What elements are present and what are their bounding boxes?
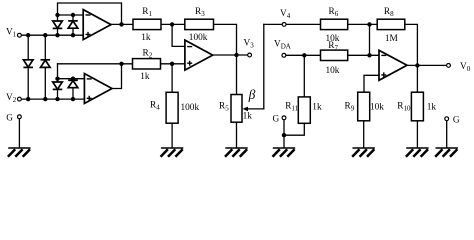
- wire node to R5 top: [236, 55, 238, 95]
- svg-text:R5: R5: [219, 101, 229, 112]
- wire diode D6 branch: [72, 79, 74, 99]
- diode D2: [68, 21, 78, 28]
- wire V4 line left of terminal: [264, 23, 282, 25]
- wire diode D4 branch: [44, 35, 46, 99]
- wire A1 feedback top: [58, 3, 122, 24]
- U2 minus marker: [87, 78, 92, 80]
- op-amp U3: [185, 40, 213, 70]
- svg-text:1M: 1M: [385, 34, 398, 44]
- wire R5 bottom to ground: [236, 122, 238, 147]
- svg-text:R6: R6: [329, 7, 339, 18]
- wire G left terminal stem: [18, 119, 20, 147]
- wire V4 terminal to R6: [286, 23, 320, 25]
- junction D6 on V2 line: [71, 97, 75, 101]
- resistor R8: [377, 19, 405, 29]
- svg-text:V0: V0: [460, 62, 471, 73]
- svg-text:10k: 10k: [370, 103, 384, 113]
- ground 2 (R4): [161, 148, 184, 157]
- junction D4 on V2 line: [43, 97, 47, 101]
- svg-text:R3: R3: [195, 7, 205, 18]
- wire VDA node down to R11: [303, 55, 305, 97]
- terminal V0: [447, 64, 451, 68]
- resistor R2: [133, 59, 161, 69]
- junction U4 output node: [415, 63, 419, 67]
- U3 minus marker: [187, 46, 192, 48]
- diode D3: [23, 60, 33, 68]
- svg-text:1k: 1k: [141, 33, 151, 43]
- svg-text:R9: R9: [345, 101, 355, 112]
- wire VDA terminal to R7: [286, 54, 321, 56]
- wire A4 noninverting input: [364, 75, 379, 92]
- svg-text:β: β: [248, 87, 256, 102]
- wire A2 feedback row / R2 row: [58, 63, 134, 65]
- svg-text:R4: R4: [150, 100, 160, 111]
- svg-text:G: G: [273, 114, 280, 124]
- junction R1-R3 node: [170, 22, 174, 26]
- op-amp U4: [379, 50, 407, 80]
- U4 minus marker: [381, 54, 386, 56]
- diode D4: [41, 60, 51, 68]
- resistor R5: [231, 95, 242, 123]
- U4 plus marker: [381, 72, 386, 77]
- resistor R9: [358, 92, 370, 121]
- diode D1: [53, 21, 63, 28]
- junction D1 top rail: [55, 13, 59, 17]
- wire diode D1 branch: [57, 15, 59, 35]
- wire R11 bottom to G node: [284, 123, 304, 135]
- wire A2 output up: [112, 64, 122, 89]
- terminal G left: [18, 115, 22, 119]
- ground 4 (G mid): [273, 148, 296, 157]
- wire diode D5 branch: [57, 79, 59, 99]
- svg-text:R2: R2: [143, 48, 153, 59]
- wire diode D3 branch: [27, 35, 29, 99]
- ground 5 (R9): [352, 148, 375, 157]
- wire R1 to R3: [161, 23, 185, 25]
- junction R6-R8 node: [367, 22, 371, 26]
- svg-text:1k: 1k: [312, 103, 322, 113]
- svg-text:10k: 10k: [326, 66, 340, 76]
- junction G-R11 ground node: [282, 133, 286, 137]
- svg-text:1k: 1k: [243, 112, 253, 122]
- ground 7 (G right): [435, 148, 458, 157]
- terminal V2: [18, 97, 22, 101]
- junction D1 on V1 line: [55, 33, 59, 37]
- wire junction to A3 inverting input: [172, 24, 185, 46]
- U1 minus marker: [86, 14, 91, 16]
- resistor R10: [411, 92, 423, 121]
- terminal G mid: [282, 116, 286, 120]
- terminal G right: [445, 117, 449, 121]
- wire G right terminal stem: [446, 121, 448, 147]
- junction D5 on U2 inverting rail: [55, 77, 59, 81]
- svg-text:G: G: [6, 113, 13, 123]
- wire V1 input line: [21, 34, 83, 36]
- wire A2 feedback down: [57, 64, 59, 79]
- svg-text:100k: 100k: [189, 33, 208, 43]
- terminal V3: [248, 53, 252, 57]
- wire V4 column down to wiper: [263, 24, 265, 109]
- junction D6 on U2 inverting rail: [71, 77, 75, 81]
- diode D5: [53, 82, 63, 89]
- junction U1 output feedback: [119, 22, 123, 26]
- terminal V4: [282, 23, 286, 27]
- svg-text:100k: 100k: [181, 103, 200, 113]
- op-amp U2: [84, 74, 112, 104]
- wire R3 right to A3 output node: [214, 24, 237, 55]
- resistor R7: [321, 50, 348, 60]
- junction R7 to U4 inverting input: [367, 53, 371, 57]
- svg-text:V4: V4: [280, 9, 291, 20]
- wire G mid terminal stem: [283, 120, 285, 147]
- U2 plus marker: [87, 96, 92, 101]
- junction node VDA-R11: [302, 53, 306, 57]
- junction D2 top rail: [71, 13, 75, 17]
- wire R2 to A3 noninverting input: [161, 63, 185, 65]
- U3 plus marker: [187, 61, 192, 66]
- wire A1 output: [111, 23, 133, 25]
- wire R8 right to output node: [405, 24, 418, 65]
- resistor R6: [321, 19, 348, 29]
- op-amp U1: [83, 10, 111, 40]
- wire A3 output row to V3: [213, 54, 248, 56]
- wire A2 inverting rail: [58, 78, 85, 80]
- svg-text:R11: R11: [285, 101, 298, 112]
- ground 3 (R5): [225, 148, 248, 157]
- resistor R11: [298, 97, 310, 123]
- junction D3 on V1 line: [26, 33, 30, 37]
- svg-text:G: G: [453, 116, 460, 126]
- wire R5 wiper: [246, 108, 264, 110]
- svg-text:1k: 1k: [427, 103, 437, 113]
- junction D2 on V1 line: [71, 33, 75, 37]
- terminal V1: [18, 33, 22, 37]
- svg-text:V3: V3: [244, 39, 255, 50]
- wire diode D2 branch: [72, 15, 74, 35]
- wire R6/R7 junction link: [369, 24, 371, 55]
- U1 plus marker: [86, 32, 91, 37]
- wire output node to R10: [416, 65, 418, 92]
- wire R6 to R8: [348, 23, 378, 25]
- junction D3 on V2 line: [26, 97, 30, 101]
- svg-text:1k: 1k: [140, 72, 150, 82]
- wire R9 bottom to ground: [363, 121, 365, 147]
- terminal VDA: [282, 53, 286, 57]
- diode D6: [68, 80, 78, 87]
- resistor R4: [166, 92, 178, 123]
- R5 wiper arrowhead: [243, 107, 249, 112]
- junction D4 on V1 line: [43, 33, 47, 37]
- junction R2-R4 node: [170, 62, 174, 66]
- ground 1 (left G): [8, 148, 31, 157]
- wire R7 to A4 inverting input: [348, 54, 379, 56]
- wire R10 bottom to ground: [416, 121, 418, 147]
- junction U2 output feedback: [119, 62, 123, 66]
- resistor R3: [185, 19, 214, 29]
- svg-text:R10: R10: [397, 101, 411, 112]
- svg-text:V2: V2: [6, 93, 17, 104]
- wire junction down to R4: [171, 64, 173, 93]
- wire R4 bottom to ground: [171, 123, 173, 147]
- wire A1 inverting rail: [58, 14, 84, 16]
- junction D5 on V2 line: [55, 97, 59, 101]
- svg-text:R1: R1: [142, 7, 152, 18]
- svg-text:V1: V1: [6, 28, 17, 39]
- ground 6 (R10): [406, 148, 429, 157]
- resistor R1: [133, 19, 161, 29]
- wire A4 output to V0: [407, 64, 447, 66]
- svg-text:R8: R8: [384, 7, 394, 18]
- svg-text:VDA: VDA: [274, 40, 291, 51]
- junction node V3: [234, 53, 238, 57]
- wire V2 input line: [21, 98, 84, 100]
